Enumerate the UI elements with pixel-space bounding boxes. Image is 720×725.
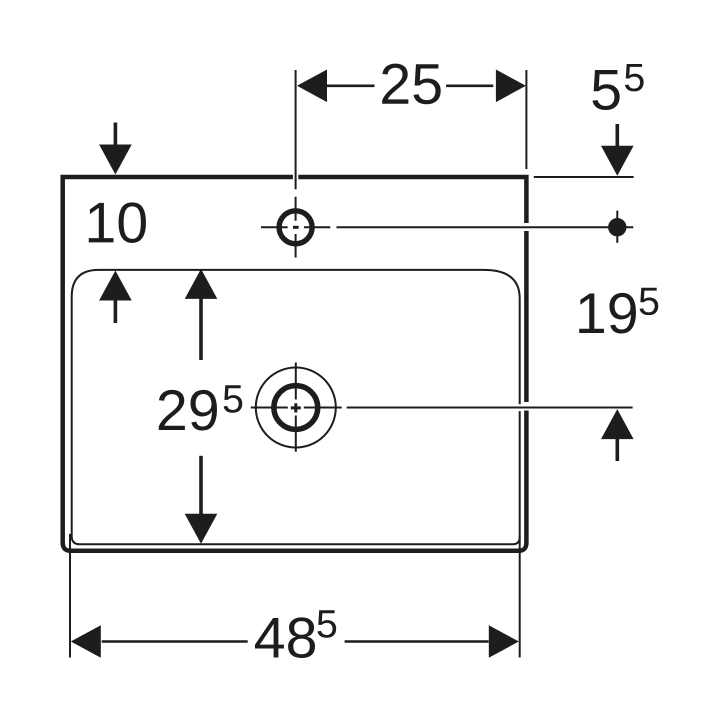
dim 25: dimension line right segment (446, 85, 493, 88)
label 48 (255, 618, 284, 657)
label 5 superscript (625, 64, 644, 91)
drain inner circle (274, 386, 318, 430)
dim 25: dimension line left segment (327, 85, 375, 88)
dim 29.5: down arrow tail (199, 456, 203, 517)
gap in right edge at faucet hole line (524, 223, 529, 231)
washbasin outer outline (63, 177, 527, 551)
dim 19.5: up arrow tail (615, 438, 619, 461)
faucet hole circle (279, 211, 312, 244)
dim 5.5: extension line at top edge level (534, 176, 634, 178)
dim 29.5: up arrowhead (185, 269, 218, 299)
dim 25: right arrowhead (496, 70, 526, 103)
dim 19.5: reference dot (608, 218, 626, 236)
dim 25: left arrowhead (297, 70, 327, 103)
label 5 (main) (592, 70, 619, 110)
label 29 superscript (224, 385, 243, 412)
gap in basin right edge at drain line (518, 404, 521, 411)
dim 48.5: dimension line left segment (102, 640, 248, 643)
dim 25: extension line right (525, 70, 527, 169)
gap in top edge at faucet centerline (293, 174, 298, 179)
label 25 (382, 64, 408, 104)
dim 48.5: left extension line (69, 534, 71, 658)
faucet hole vertical centerline (295, 70, 297, 258)
label 29 (159, 390, 185, 430)
drain vertical centerline (295, 363, 297, 452)
faucet hole center dash (293, 226, 299, 229)
drain outer circle (256, 368, 336, 448)
label 10 (89, 203, 114, 242)
dim 48.5: right arrowhead (489, 625, 519, 658)
dim 10: top down arrowhead (99, 145, 132, 175)
dim 10: top down arrow tail (114, 123, 118, 147)
dim 29.5: up arrow tail (199, 297, 203, 360)
dim 10: bottom up arrowhead (99, 271, 132, 301)
faucet hole horizontal centerline (261, 226, 633, 228)
dim 48.5: dimension line right segment (345, 640, 489, 643)
label 48 superscript (317, 610, 336, 637)
dim 5.5: down arrow tail (615, 124, 619, 147)
label 19 superscript (640, 288, 659, 315)
dim 48.5: left arrowhead (71, 625, 101, 658)
dim 19.5: dot tick line (616, 211, 618, 243)
label 19 (579, 294, 604, 333)
inner basin outline (72, 270, 520, 544)
drain center cross (291, 403, 301, 412)
dim 10: bottom up arrow tail (114, 299, 118, 323)
dim 5.5: down arrowhead (601, 146, 634, 176)
gap in right edge at drain line (524, 402, 529, 411)
dim 29.5: down arrowhead (185, 514, 218, 544)
drain horizontal centerline (251, 407, 633, 409)
dim 19.5: up arrowhead at drain line (601, 409, 634, 439)
dim 48.5: right extension line (519, 537, 521, 658)
